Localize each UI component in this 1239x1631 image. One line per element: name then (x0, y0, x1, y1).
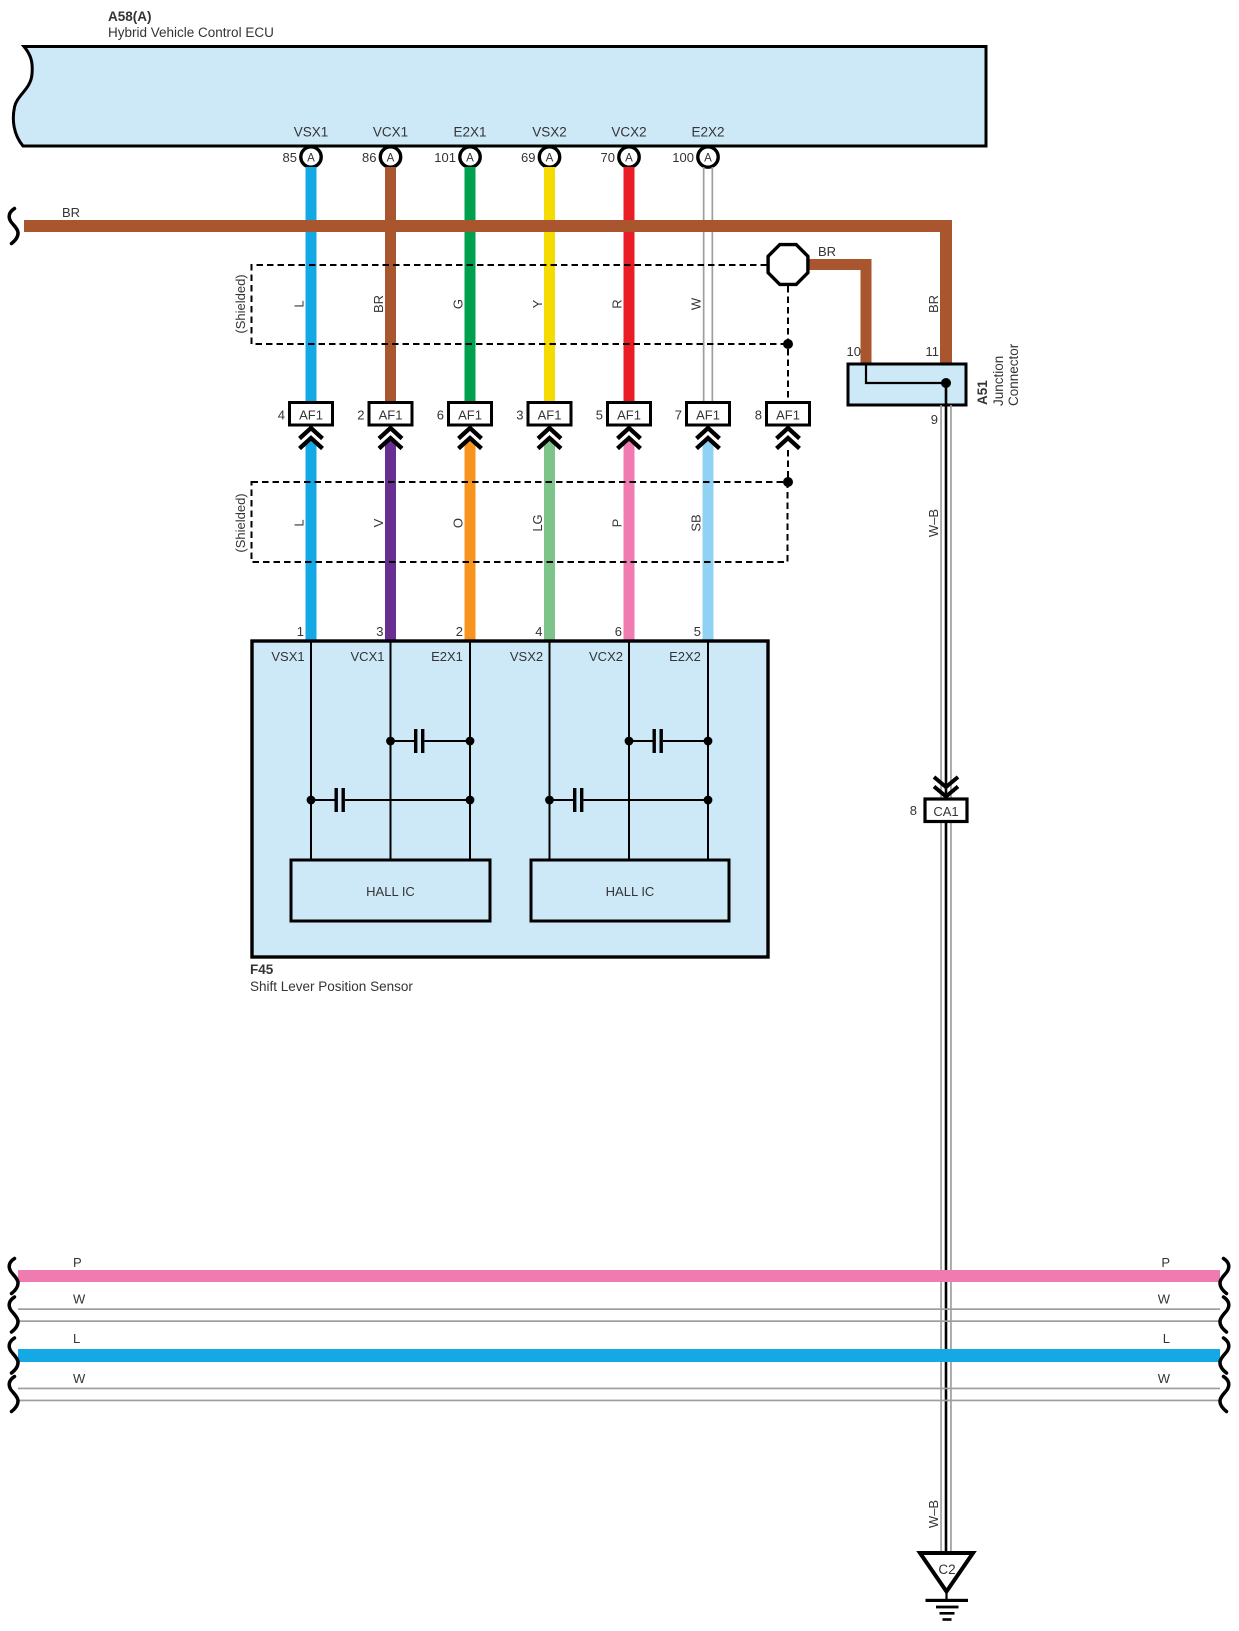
ground bars (926, 1599, 969, 1621)
svg-text:VSX2: VSX2 (532, 125, 567, 140)
svg-text:E2X2: E2X2 (669, 649, 701, 664)
svg-text:AF1: AF1 (538, 408, 562, 423)
F45 internal line x=470 (469, 641, 471, 860)
svg-text:L: L (73, 1331, 80, 1346)
junction internal node (941, 378, 951, 388)
svg-text:BR: BR (818, 244, 836, 259)
svg-text:10: 10 (847, 344, 861, 359)
svg-text:A: A (546, 153, 554, 165)
connector A pin 69 (VSX2) (521, 147, 560, 167)
shield drain dashed wire (AF1-8 to lower shield) (787, 450, 789, 478)
connector CA1 pin 8 (910, 799, 967, 822)
svg-text:70: 70 (601, 150, 615, 165)
svg-text:Y: Y (530, 299, 545, 308)
wire break right (W) (1220, 1297, 1229, 1332)
svg-text:101: 101 (434, 150, 456, 165)
svg-text:W: W (689, 297, 704, 310)
wire P horizontal (18, 1270, 1220, 1282)
wire BR from shield octagon to junction connector pin 10 (806, 265, 866, 365)
svg-text:SB: SB (689, 514, 704, 531)
HALL IC block 1 (291, 860, 490, 921)
svg-text:L: L (292, 519, 307, 526)
svg-text:4: 4 (278, 408, 285, 423)
junction connector A51 box (848, 364, 966, 405)
svg-text:F45: F45 (250, 962, 274, 977)
svg-text:W–B: W–B (926, 509, 941, 537)
shift lever position sensor F45 box (252, 641, 768, 957)
svg-text:E2X1: E2X1 (453, 125, 486, 140)
connector AF1 pin 2 (357, 403, 412, 449)
svg-text:3: 3 (516, 408, 523, 423)
wire break left (W) (9, 1377, 18, 1412)
svg-text:L: L (292, 300, 307, 307)
wire W (white) from ECU to AF1 (703, 167, 713, 403)
svg-text:O: O (451, 518, 466, 528)
wire Y from ECU to AF1 (544, 167, 555, 403)
svg-text:(Shielded): (Shielded) (233, 493, 248, 552)
wire L from AF1 to F45 (306, 437, 317, 642)
svg-text:8: 8 (755, 408, 762, 423)
svg-text:AF1: AF1 (299, 408, 323, 423)
svg-text:VSX1: VSX1 (294, 125, 329, 140)
svg-text:85: 85 (283, 150, 297, 165)
svg-text:A: A (625, 153, 633, 165)
svg-text:VCX1: VCX1 (351, 649, 385, 664)
svg-text:3: 3 (376, 624, 383, 639)
connector A pin 70 (VCX2) (601, 147, 640, 167)
connector AF1 pin 5 (596, 403, 651, 449)
svg-text:11: 11 (926, 344, 940, 359)
svg-text:P: P (1161, 1255, 1170, 1270)
svg-text:P: P (73, 1255, 82, 1270)
svg-text:Hybrid Vehicle Control ECU: Hybrid Vehicle Control ECU (108, 25, 274, 40)
svg-text:A: A (307, 153, 315, 165)
svg-text:100: 100 (672, 150, 694, 165)
wire V from AF1 to F45 (385, 437, 396, 642)
ground stem (945, 1591, 947, 1600)
svg-text:1: 1 (297, 624, 304, 639)
svg-text:AF1: AF1 (458, 408, 482, 423)
svg-text:W: W (73, 1371, 86, 1386)
connector AF1 pin 6 (437, 403, 492, 449)
svg-text:LG: LG (530, 514, 545, 531)
wire break left (L) (9, 1338, 18, 1373)
svg-text:A58(A): A58(A) (108, 9, 152, 24)
svg-text:5: 5 (694, 624, 701, 639)
wire W horizontal (1) (18, 1308, 1220, 1322)
capacitor C between VSX1 and E2X1 (307, 788, 475, 812)
svg-text:Shift Lever Position Sensor: Shift Lever Position Sensor (250, 979, 413, 994)
shielded cable box (upper) (252, 265, 789, 344)
F45 internal line x=549.5 (549, 641, 551, 860)
svg-text:Connector: Connector (1006, 343, 1021, 406)
svg-text:E2X1: E2X1 (431, 649, 463, 664)
HALL IC block 2 (531, 860, 729, 921)
svg-text:5: 5 (596, 408, 603, 423)
svg-text:W–B: W–B (926, 1500, 941, 1528)
connector AF1 pin 7 (675, 403, 730, 449)
capacitor C between VCX2 and E2X2 (625, 729, 713, 753)
svg-text:BR: BR (62, 205, 80, 220)
svg-text:2: 2 (456, 624, 463, 639)
connector AF1 pin 3 (516, 403, 571, 449)
wire G from ECU to AF1 (465, 167, 476, 403)
splice chevrons above CA1 (934, 777, 958, 797)
svg-text:69: 69 (521, 150, 535, 165)
svg-text:HALL IC: HALL IC (366, 884, 415, 899)
svg-text:7: 7 (675, 408, 682, 423)
svg-text:W: W (1158, 1292, 1171, 1307)
svg-text:BR: BR (371, 295, 386, 313)
svg-text:L: L (1163, 1331, 1170, 1346)
svg-text:HALL IC: HALL IC (606, 884, 655, 899)
svg-text:8: 8 (910, 803, 917, 818)
svg-text:A: A (704, 153, 712, 165)
wire break left (P) (9, 1259, 18, 1294)
wire break left (W) (9, 1297, 18, 1332)
wire BR from ECU to AF1 (385, 167, 396, 403)
svg-text:BR: BR (926, 295, 941, 313)
svg-text:A: A (387, 153, 395, 165)
shield node (upper) (783, 339, 793, 349)
connector AF1 pin 8 (755, 403, 810, 449)
svg-text:6: 6 (615, 624, 622, 639)
svg-text:86: 86 (362, 150, 376, 165)
svg-text:P: P (610, 519, 625, 528)
capacitor C between VCX1 and E2X1 (386, 729, 474, 753)
svg-text:G: G (451, 299, 466, 309)
F45 internal line x=629 (628, 641, 630, 860)
F45 internal line x=708 (707, 641, 709, 860)
svg-text:V: V (371, 518, 386, 527)
svg-text:(Shielded): (Shielded) (233, 274, 248, 333)
svg-text:W: W (1158, 1371, 1171, 1386)
wire LG from AF1 to F45 (544, 437, 555, 642)
connector A pin 101 (E2X1) (434, 147, 480, 167)
wire R from ECU to AF1 (624, 167, 635, 403)
svg-text:AF1: AF1 (776, 408, 800, 423)
F45 internal line x=390.5 (390, 641, 392, 860)
wire O from AF1 to F45 (465, 437, 476, 642)
svg-text:2: 2 (357, 408, 364, 423)
Hybrid Vehicle Control ECU A58(A) box (13, 47, 986, 147)
wire W horizontal (2) (18, 1388, 1220, 1402)
shielded cable box (lower) (252, 482, 788, 562)
connector A pin 86 (VCX1) (362, 147, 401, 167)
svg-text:VSX2: VSX2 (510, 649, 543, 664)
wire break right (P) (1220, 1259, 1229, 1294)
svg-text:VCX2: VCX2 (611, 125, 646, 140)
capacitor C between VSX2 and E2X2 (545, 788, 712, 812)
junction connector internal link (866, 364, 946, 383)
shield drain dashed wire (octagon to node) (787, 349, 789, 401)
svg-text:VCX2: VCX2 (589, 649, 623, 664)
svg-text:W: W (73, 1292, 86, 1307)
shield node (lower) (783, 477, 793, 487)
wire break right (W) (1220, 1377, 1229, 1412)
wire W-B black stripe (945, 383, 948, 1553)
wire BR horizontal from break to junction connector pin 11 (24, 226, 946, 364)
svg-text:A: A (466, 153, 474, 165)
ground triangle C2 (920, 1553, 973, 1592)
svg-text:E2X2: E2X2 (691, 125, 724, 140)
connector A pin 85 (VSX1) (283, 147, 322, 167)
svg-text:Junction: Junction (991, 356, 1006, 406)
svg-text:CA1: CA1 (933, 804, 958, 819)
svg-text:VSX1: VSX1 (271, 649, 304, 664)
wire P from AF1 to F45 (624, 437, 635, 642)
svg-text:6: 6 (437, 408, 444, 423)
wire SB from AF1 to F45 (703, 437, 714, 642)
svg-text:9: 9 (931, 412, 938, 427)
svg-text:AF1: AF1 (696, 408, 720, 423)
svg-text:C2: C2 (938, 1562, 955, 1577)
svg-text:4: 4 (535, 624, 542, 639)
F45 internal line x=311 (310, 641, 312, 860)
svg-text:AF1: AF1 (617, 408, 641, 423)
connector A pin 100 (E2X2) (672, 147, 718, 167)
svg-text:A51: A51 (975, 380, 990, 405)
wire L from ECU to AF1 (306, 167, 317, 403)
svg-text:VCX1: VCX1 (373, 125, 408, 140)
shield terminal octagon (768, 245, 808, 285)
wire break right (L) (1220, 1338, 1229, 1373)
connector AF1 pin 4 (278, 403, 333, 449)
wire W-B white outlines (940, 405, 952, 1553)
wire L horizontal (18, 1349, 1220, 1362)
svg-text:AF1: AF1 (379, 408, 403, 423)
wire break symbol BR left (9, 209, 18, 244)
svg-text:R: R (610, 299, 625, 308)
